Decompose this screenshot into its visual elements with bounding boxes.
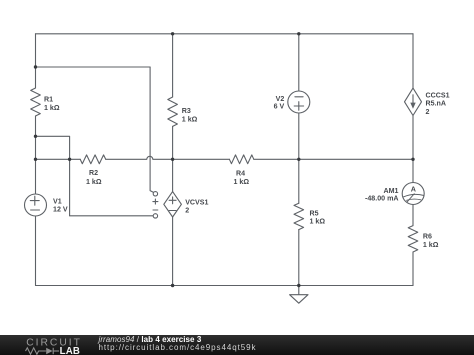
svg-text:CCCS1: CCCS1 (426, 91, 450, 99)
wire second rail y67 (36, 66, 151, 68)
resistor R6 (408, 226, 418, 252)
wire R3 bottom (172, 126, 174, 159)
ground (298, 286, 300, 295)
svg-text:6 V: 6 V (274, 102, 285, 110)
terminal minus (153, 214, 157, 218)
svg-text:1 kΩ: 1 kΩ (423, 241, 439, 249)
wire R5 top (298, 159, 300, 203)
svg-text:2: 2 (426, 108, 430, 116)
wire VCVS top (172, 159, 174, 191)
wire R6 bottom (412, 252, 414, 286)
wire to VCVS minus terminal (70, 215, 154, 217)
wire R1 bottom to V1 top (35, 116, 37, 194)
wire CCCS bottom (412, 116, 414, 160)
wire left branch upper segment (35, 34, 37, 88)
svg-text:R2: R2 (89, 169, 98, 177)
svg-text:V1: V1 (53, 198, 62, 206)
wire R3 branch top (172, 34, 174, 97)
svg-text:R3: R3 (182, 107, 191, 115)
resistor R3 (168, 97, 178, 126)
wire stub y136 (36, 136, 70, 216)
CircuitLab logo (25, 335, 87, 355)
node x413 y159 (411, 158, 414, 161)
svg-text:1 kΩ: 1 kΩ (86, 178, 102, 186)
resistor R4 (229, 155, 253, 164)
node bottom VCVS (171, 284, 174, 287)
svg-text:R1: R1 (44, 96, 53, 104)
node x298 y159 (297, 158, 300, 161)
svg-text:1 kΩ: 1 kΩ (310, 218, 326, 226)
svg-text:LAB: LAB (59, 346, 80, 355)
svg-text:2: 2 (185, 206, 189, 214)
wire middle rail with hop (106, 156, 230, 159)
node left y159 (34, 158, 37, 161)
node left y67 (34, 65, 37, 68)
wire middle rail left part (36, 158, 81, 160)
wire V2 top (298, 34, 300, 91)
voltage source V1 (25, 194, 47, 216)
svg-text:VCVS1: VCVS1 (185, 198, 208, 206)
wire AM1 top (412, 159, 414, 182)
svg-text:12 V: 12 V (53, 206, 68, 214)
node x172 y159 (171, 158, 174, 161)
svg-text:1 kΩ: 1 kΩ (234, 178, 250, 186)
resistor R1 (31, 88, 41, 116)
resistor R5 (294, 203, 304, 229)
svg-text:1 kΩ: 1 kΩ (44, 104, 60, 112)
dependent source CCCS1 (405, 88, 422, 115)
wire V1 bottom to bottom rail (35, 216, 37, 286)
svg-text:R4: R4 (236, 169, 245, 177)
node left y136 (34, 135, 37, 138)
wire top rail (36, 33, 414, 35)
wire CCCS top (412, 34, 414, 88)
dependent source VCVS1 (164, 192, 182, 217)
svg-text:R5: R5 (310, 210, 319, 218)
footer bar (0, 335, 474, 355)
wire V2 bottom (298, 113, 300, 159)
wire VCVS bottom (172, 217, 174, 286)
wire AM1 bottom (412, 205, 414, 226)
voltage source V2 (288, 91, 310, 113)
svg-text:A: A (411, 184, 416, 193)
node top R3 junction (171, 32, 174, 35)
svg-text:1 kΩ: 1 kΩ (182, 115, 198, 123)
wire middle rail right part (254, 158, 413, 160)
terminal plus (153, 192, 157, 196)
wire R5 bottom (298, 230, 300, 286)
resistor R2 (80, 155, 106, 164)
svg-text:R6: R6 (423, 232, 432, 240)
wire bottom rail (36, 285, 414, 287)
node x69 y159 (68, 158, 71, 161)
svg-text:-48.00 mA: -48.00 mA (365, 195, 399, 203)
ammeter AM1 (402, 183, 424, 205)
node bottom ground (297, 284, 300, 287)
wire vertical to VCVS plus terminal (150, 67, 153, 192)
node top V2 junction (297, 32, 300, 35)
svg-text:R5.nA: R5.nA (426, 100, 447, 108)
